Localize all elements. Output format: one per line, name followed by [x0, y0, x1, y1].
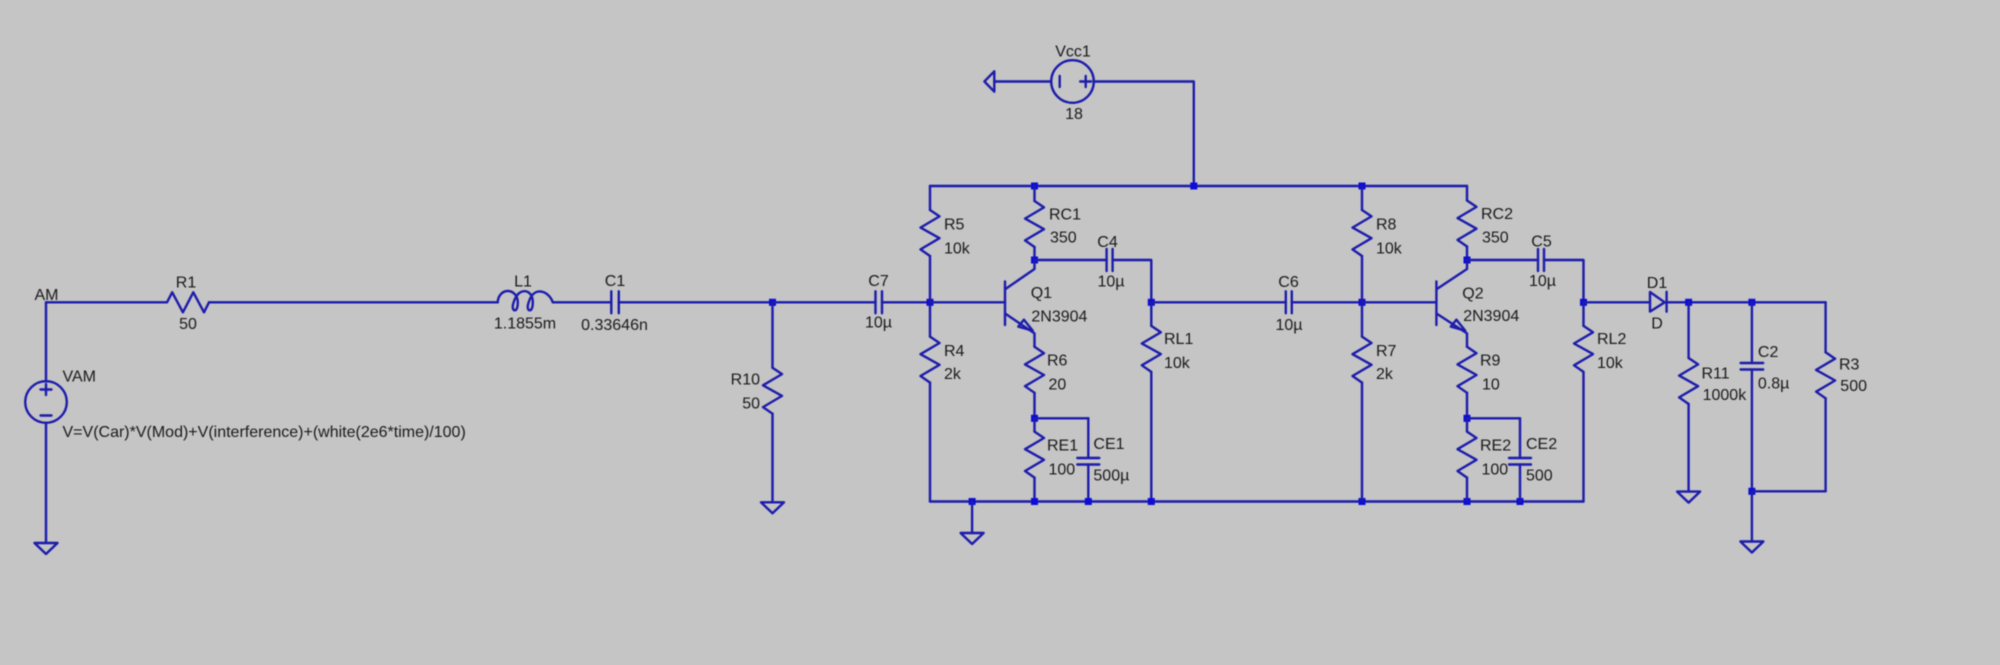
wire R4 top lead: [929, 302, 931, 336]
label C6: [1278, 274, 1299, 291]
svg-text:R6: R6: [1047, 353, 1068, 370]
capacitor C2: [1741, 363, 1764, 370]
svg-text:RC2: RC2: [1481, 206, 1513, 223]
svg-text:C2: C2: [1758, 344, 1779, 361]
value 100 of RE2: [1482, 462, 1509, 479]
svg-text:VAM: VAM: [63, 369, 96, 386]
wire RC1 top lead: [1033, 186, 1035, 201]
wire RC1 bottom lead: [1033, 247, 1035, 260]
junction Q2 collector node: [1464, 257, 1471, 264]
label CE2: [1526, 436, 1557, 453]
wire R3 top lead corner: [1824, 302, 1826, 352]
label C5: [1531, 234, 1552, 251]
value 10&#181; of C6: [1275, 317, 1302, 334]
svg-text:2k: 2k: [944, 366, 962, 383]
label R7: [1376, 343, 1397, 360]
wire C2 ground stub: [1751, 491, 1753, 541]
wire to CE1 top: [1035, 417, 1089, 419]
junction R11 top: [1685, 299, 1692, 306]
resistor R6: [1025, 347, 1044, 393]
svg-text:R5: R5: [944, 217, 965, 234]
svg-text:C6: C6: [1278, 274, 1299, 291]
label C2: [1758, 344, 1779, 361]
junction Q1 collector node: [1031, 257, 1038, 264]
resistor R4: [921, 337, 940, 383]
value 100 of RE1: [1049, 462, 1076, 479]
junction top rail at Vcc wire: [1190, 183, 1197, 190]
label R3: [1839, 356, 1860, 373]
svg-text:500: 500: [1526, 468, 1553, 485]
svg-text:10µ: 10µ: [1097, 274, 1124, 291]
svg-text:D1: D1: [1647, 275, 1668, 292]
value 10k of R8: [1376, 241, 1403, 258]
svg-text:R1: R1: [176, 275, 197, 292]
wire R7 top lead: [1361, 302, 1363, 336]
value 10&#181; of C7: [865, 315, 892, 332]
wire CE1 bottom lead: [1087, 465, 1089, 502]
resistor R3: [1816, 352, 1835, 398]
junction bottom rail at RL1: [1148, 498, 1155, 505]
resistor RE2: [1458, 432, 1477, 478]
value 18 of Vcc1: [1065, 106, 1083, 123]
value 2N3904 of Q1: [1031, 309, 1087, 326]
value 0.8&#181; of C2: [1758, 376, 1789, 393]
junction bottom rail at RE2: [1464, 498, 1471, 505]
wire RE1 top lead: [1033, 418, 1035, 431]
wire R5 top lead: [929, 186, 931, 210]
value 20 of R6: [1049, 377, 1067, 394]
wire base node to Q1 base: [930, 301, 1005, 303]
wire RC2 bottom lead: [1466, 247, 1468, 261]
capacitor C7: [876, 291, 883, 313]
wire R9 bottom lead: [1466, 393, 1468, 419]
label R10: [731, 372, 760, 389]
wire R11 top lead: [1687, 302, 1689, 358]
label L1: [514, 274, 532, 291]
svg-text:0.33646n: 0.33646n: [581, 317, 648, 334]
diode D1: [1650, 292, 1667, 312]
wire RL1 bottom lead: [1150, 372, 1152, 502]
wire R4 bottom lead: [929, 383, 931, 502]
svg-text:R3: R3: [1839, 356, 1860, 373]
wire node to Q2 base: [1362, 301, 1436, 303]
value 50 of R10: [742, 396, 760, 413]
svg-text:C4: C4: [1097, 234, 1118, 251]
value 50 of R1: [179, 316, 197, 333]
transistor Q1: [1005, 260, 1035, 347]
ground below R11: [1677, 492, 1700, 503]
svg-text:1000k: 1000k: [1703, 387, 1748, 404]
svg-text:C5: C5: [1531, 234, 1552, 251]
svg-text:C1: C1: [605, 273, 626, 290]
resistor RE1: [1025, 432, 1044, 478]
value 10 of R9: [1482, 377, 1500, 394]
svg-text:10µ: 10µ: [1529, 273, 1556, 290]
svg-text:10k: 10k: [1597, 355, 1624, 372]
svg-text:R10: R10: [731, 372, 760, 389]
value 500 of R3: [1840, 378, 1867, 395]
svg-text:1.1855m: 1.1855m: [494, 316, 556, 333]
resistor RC2: [1458, 201, 1477, 247]
voltage source Vcc1: [1051, 60, 1094, 103]
transistor Q2: [1436, 260, 1467, 347]
resistor R8: [1353, 210, 1372, 256]
svg-text:RL1: RL1: [1164, 331, 1193, 348]
capacitor C4: [1107, 249, 1113, 271]
value 500&#181; of CE1: [1093, 468, 1129, 485]
svg-text:R11: R11: [1702, 365, 1730, 382]
svg-text:R7: R7: [1376, 343, 1397, 360]
svg-text:350: 350: [1482, 230, 1509, 247]
wire R8 top lead: [1361, 186, 1363, 210]
junction C2 top: [1748, 299, 1755, 306]
wire C1 to node R10: [619, 301, 773, 303]
junction bottom rail at CE1: [1085, 498, 1092, 505]
resistor R1: [167, 292, 209, 312]
resistor RL2: [1574, 326, 1593, 372]
wire C2 bottom lead: [1751, 370, 1753, 492]
wire CE2 top lead: [1519, 418, 1521, 458]
value 10k of RL2: [1597, 355, 1624, 372]
value 10k of R5: [944, 241, 971, 258]
ground below VAM: [35, 543, 58, 554]
svg-text:20: 20: [1049, 377, 1067, 394]
svg-text:C7: C7: [868, 273, 889, 290]
wire top rail corner to RC2: [1466, 186, 1468, 201]
label Vcc1: [1055, 44, 1091, 61]
arrow terminal of Vcc1: [984, 71, 994, 91]
value 500 of CE2: [1526, 468, 1553, 485]
voltage source VAM: [25, 381, 67, 423]
inductor L1: [498, 291, 553, 310]
value 2N3904 of Q2: [1463, 308, 1519, 325]
wire Vcc1 to top rail: [1094, 82, 1194, 187]
wire D1 to R3 corner: [1667, 301, 1826, 303]
svg-text:Q2: Q2: [1462, 285, 1483, 302]
wire C4 left segment: [1035, 259, 1107, 261]
wire RL2 node to D1: [1584, 301, 1651, 303]
wire R3 bottom to C2 node: [1752, 490, 1826, 492]
label R1: [176, 275, 197, 292]
svg-text:D: D: [1651, 316, 1663, 333]
svg-text:R9: R9: [1480, 353, 1501, 370]
capacitor C1: [611, 291, 619, 313]
wire C5 left segment: [1467, 259, 1538, 261]
label R4: [944, 343, 965, 360]
wire R6 bottom lead: [1033, 393, 1035, 419]
resistor RC1: [1025, 201, 1044, 247]
svg-text:500µ: 500µ: [1093, 468, 1129, 485]
value 1000k of R11: [1703, 387, 1748, 404]
svg-text:10k: 10k: [1376, 241, 1403, 258]
junction node at R10 top: [769, 299, 776, 306]
wire C6 to R8 node: [1292, 301, 1362, 303]
svg-text:Vcc1: Vcc1: [1055, 44, 1091, 61]
label Q2: [1462, 285, 1483, 302]
value V=... expression: [63, 424, 466, 441]
svg-text:Q1: Q1: [1031, 285, 1052, 302]
svg-text:RC1: RC1: [1049, 206, 1081, 223]
label RE1: [1047, 438, 1078, 455]
wire CE1 top lead: [1087, 418, 1089, 458]
wire CE2 bottom lead: [1519, 465, 1521, 502]
junction bottom rail at R7: [1359, 498, 1366, 505]
wire top supply rail: [930, 185, 1467, 187]
svg-text:R4: R4: [944, 343, 965, 360]
value 10k of RL1: [1164, 355, 1191, 372]
junction R8/R7/base2 node: [1359, 299, 1366, 306]
wire RL2 top lead: [1582, 302, 1584, 326]
junction bottom rail at CE2: [1517, 498, 1524, 505]
junction top rail at R8: [1359, 183, 1366, 190]
wire arrow to Vcc1 circle: [994, 80, 1051, 82]
junction RL2 top node: [1580, 299, 1587, 306]
label R8: [1376, 217, 1397, 234]
svg-text:2k: 2k: [1376, 366, 1394, 383]
ground stage 1: [961, 533, 984, 544]
wire R10 top lead: [771, 302, 773, 367]
wire RL1 node to C6: [1151, 301, 1286, 303]
label R6: [1047, 353, 1068, 370]
svg-text:CE1: CE1: [1093, 436, 1124, 453]
label CE1: [1093, 436, 1124, 453]
junction bottom rail at RE1: [1031, 498, 1038, 505]
svg-text:10k: 10k: [944, 241, 971, 258]
svg-text:V=V(Car)*V(Mod)+V(interference: V=V(Car)*V(Mod)+V(interference)+(white(2…: [63, 424, 466, 441]
label VAM: [63, 369, 96, 386]
label Q1: [1031, 285, 1052, 302]
svg-text:10k: 10k: [1164, 355, 1191, 372]
label RL1: [1164, 331, 1193, 348]
resistor R9: [1458, 347, 1477, 393]
svg-text:50: 50: [179, 316, 197, 333]
wire RL1 top lead: [1150, 302, 1152, 326]
wire to CE2 top: [1467, 417, 1520, 419]
wire C4 to RL1 top: [1113, 260, 1152, 302]
svg-text:0.8µ: 0.8µ: [1758, 376, 1789, 393]
wire R11 bottom lead: [1687, 404, 1689, 492]
label RL2: [1597, 331, 1626, 348]
svg-text:RL2: RL2: [1597, 331, 1626, 348]
ground below C2: [1740, 542, 1763, 553]
value 10&#181; of C4: [1097, 274, 1124, 291]
junction emitter network 1: [1031, 415, 1038, 422]
label RC1: [1049, 206, 1081, 223]
wire VAM top lead: [45, 302, 47, 381]
junction C2 bottom node: [1748, 488, 1755, 495]
svg-text:10µ: 10µ: [865, 315, 892, 332]
svg-text:CE2: CE2: [1526, 436, 1557, 453]
wire ground stub stage1: [971, 502, 973, 534]
wire RL2 bottom lead: [1582, 372, 1584, 502]
wire R5 bottom lead: [929, 256, 931, 302]
resistor R7: [1353, 337, 1372, 383]
label C1: [605, 273, 626, 290]
label D1: [1647, 275, 1668, 292]
label R11: [1702, 365, 1730, 382]
capacitor C5: [1538, 249, 1544, 271]
resistor R5: [921, 210, 940, 256]
svg-text:18: 18: [1065, 106, 1083, 123]
wire AM corner + segment to R1: [46, 301, 167, 303]
wire L1 to C1: [553, 301, 612, 303]
wire VAM bottom lead: [45, 423, 47, 543]
wire R1 to L1: [209, 301, 498, 303]
svg-text:350: 350: [1050, 230, 1077, 247]
wire bottom rail: [930, 500, 1584, 502]
svg-text:2N3904: 2N3904: [1463, 308, 1519, 325]
junction node R5/R4/base: [927, 299, 934, 306]
wire R10 bottom lead: [771, 414, 773, 503]
junction top rail at RC1: [1031, 183, 1038, 190]
svg-text:2N3904: 2N3904: [1031, 309, 1087, 326]
label R5: [944, 217, 965, 234]
svg-text:R8: R8: [1376, 217, 1397, 234]
label C7: [868, 273, 889, 290]
svg-text:10: 10: [1482, 377, 1500, 394]
junction bottom rail ground stub: [969, 498, 976, 505]
wire RE2 bottom lead: [1466, 478, 1468, 502]
wire C7 to base node: [882, 301, 930, 303]
wire R8 bottom lead: [1361, 256, 1363, 302]
wire R7 bottom lead: [1361, 383, 1363, 502]
value 2k of R7: [1376, 366, 1394, 383]
value D of D1: [1651, 316, 1663, 333]
value 2k of R4: [944, 366, 962, 383]
svg-text:100: 100: [1049, 462, 1076, 479]
svg-text:L1: L1: [514, 274, 532, 291]
wire RE1 bottom lead: [1033, 478, 1035, 502]
junction emitter network 2: [1464, 415, 1471, 422]
svg-text:50: 50: [742, 396, 760, 413]
capacitor CE1: [1077, 458, 1099, 465]
node AM label: [35, 287, 59, 304]
label R9: [1480, 353, 1501, 370]
svg-text:RE2: RE2: [1480, 438, 1511, 455]
resistor RL1: [1142, 326, 1161, 372]
svg-text:10µ: 10µ: [1275, 317, 1302, 334]
label RC2: [1481, 206, 1513, 223]
wire R3 bottom lead: [1824, 398, 1826, 491]
svg-text:100: 100: [1482, 462, 1509, 479]
capacitor CE2: [1509, 458, 1531, 465]
wire RE2 top lead: [1466, 418, 1468, 431]
wire C5 to RL2 top: [1544, 260, 1584, 302]
wire node to C7: [773, 301, 876, 303]
junction RL1 top node: [1148, 299, 1155, 306]
value 350 of RC1: [1050, 230, 1077, 247]
value 350 of RC2: [1482, 230, 1509, 247]
svg-text:500: 500: [1840, 378, 1867, 395]
value 10&#181; of C5: [1529, 273, 1556, 290]
resistor R10: [763, 368, 782, 414]
value 1.1855m of L1: [494, 316, 556, 333]
svg-text:RE1: RE1: [1047, 438, 1078, 455]
capacitor C6: [1286, 291, 1292, 313]
ground below R10: [761, 502, 784, 513]
value 0.33646n of C1: [581, 317, 648, 334]
wire C2 top lead: [1751, 302, 1753, 363]
label C4: [1097, 234, 1118, 251]
label RE2: [1480, 438, 1511, 455]
resistor R11: [1679, 358, 1698, 404]
